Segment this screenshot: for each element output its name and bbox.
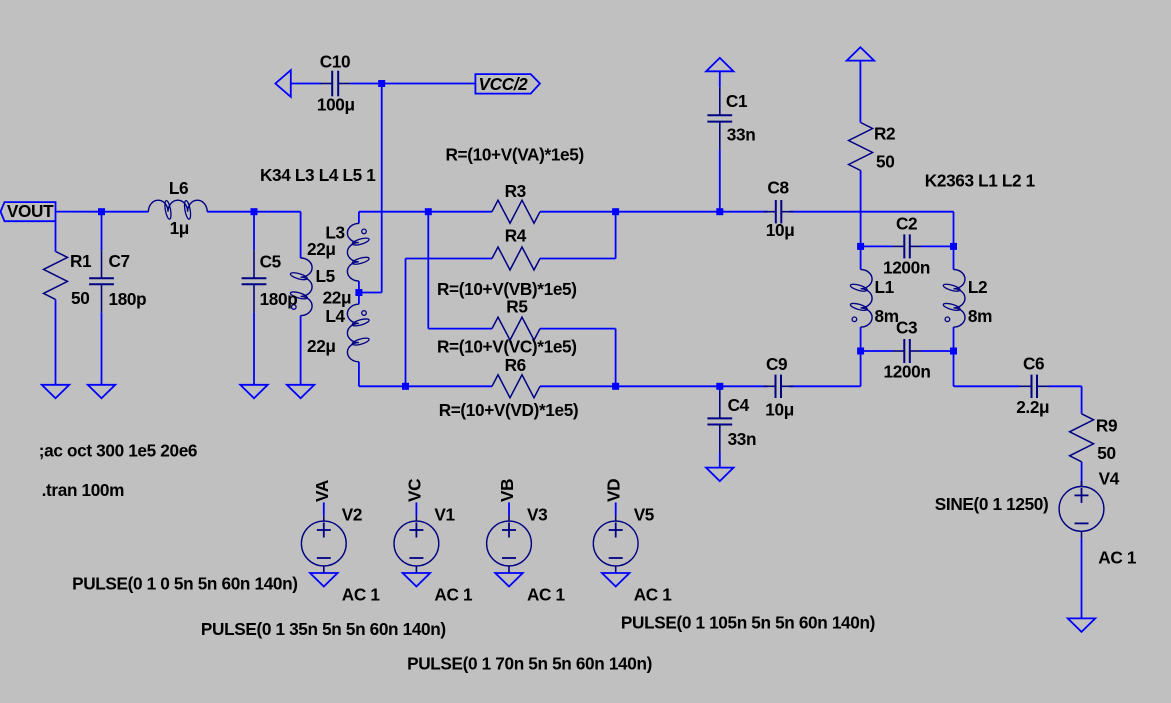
svg-text:PULSE(0 1 105n 5n 5n 60n 140n): PULSE(0 1 105n 5n 5n 60n 140n) — [621, 613, 875, 633]
svg-text:VD: VD — [604, 479, 624, 502]
svg-text:10μ: 10μ — [766, 220, 795, 240]
svg-text:R6: R6 — [505, 355, 526, 375]
svg-text:C10: C10 — [320, 52, 350, 72]
svg-text:AC 1: AC 1 — [634, 585, 673, 605]
svg-text:AC 1: AC 1 — [527, 585, 566, 605]
svg-text:VOUT: VOUT — [7, 201, 54, 221]
svg-text:PULSE(0 1 0 5n 5n 60n 140n): PULSE(0 1 0 5n 5n 60n 140n) — [72, 574, 298, 594]
svg-text:C3: C3 — [896, 317, 917, 337]
svg-text:C7: C7 — [109, 251, 130, 271]
svg-text:R5: R5 — [506, 297, 528, 317]
svg-text:R4: R4 — [505, 226, 527, 246]
svg-text:K2363 L1 L2 1: K2363 L1 L2 1 — [925, 170, 1036, 190]
svg-text:C6: C6 — [1023, 354, 1044, 374]
svg-text:PULSE(0 1 35n 5n 5n 60n 140n): PULSE(0 1 35n 5n 5n 60n 140n) — [201, 619, 446, 639]
svg-text:L1: L1 — [875, 277, 895, 297]
svg-text:8m: 8m — [875, 306, 899, 326]
svg-text:1200n: 1200n — [884, 362, 931, 382]
svg-text:K34 L3 L4 L5 1: K34 L3 L4 L5 1 — [260, 165, 376, 185]
svg-text:AC 1: AC 1 — [434, 585, 473, 605]
svg-text:L6: L6 — [169, 178, 188, 198]
svg-text:1200n: 1200n — [883, 258, 930, 278]
svg-text:180p: 180p — [260, 289, 298, 309]
svg-text:R1: R1 — [70, 251, 92, 271]
svg-text:C8: C8 — [767, 178, 789, 198]
svg-text:R=(10+V(VC)*1e5): R=(10+V(VC)*1e5) — [437, 337, 577, 357]
svg-text:2.2μ: 2.2μ — [1016, 397, 1049, 417]
svg-text:L2: L2 — [968, 277, 987, 297]
svg-text:;ac oct 300 1e5 20e6: ;ac oct 300 1e5 20e6 — [39, 441, 197, 461]
svg-text:50: 50 — [71, 288, 89, 308]
svg-text:V4: V4 — [1099, 468, 1120, 488]
svg-text:V5: V5 — [634, 504, 655, 524]
svg-text:1μ: 1μ — [170, 218, 189, 238]
svg-text:33n: 33n — [727, 124, 756, 144]
svg-text:R=(10+V(VA)*1e5): R=(10+V(VA)*1e5) — [446, 144, 584, 164]
svg-text:R9: R9 — [1096, 416, 1117, 436]
svg-text:C4: C4 — [728, 395, 750, 415]
svg-text:C2: C2 — [896, 214, 917, 234]
svg-text:V3: V3 — [527, 504, 547, 524]
svg-text:AC 1: AC 1 — [342, 585, 381, 605]
svg-text:22μ: 22μ — [307, 336, 336, 356]
svg-text:AC 1: AC 1 — [1098, 548, 1137, 568]
svg-text:C9: C9 — [766, 354, 787, 374]
svg-text:100μ: 100μ — [317, 95, 355, 115]
svg-text:L5: L5 — [316, 266, 336, 286]
svg-text:VCC/2: VCC/2 — [479, 74, 529, 94]
svg-text:V2: V2 — [342, 504, 362, 524]
svg-text:50: 50 — [876, 152, 894, 172]
svg-text:C5: C5 — [260, 252, 282, 272]
svg-text:180p: 180p — [109, 289, 147, 309]
svg-text:VB: VB — [497, 479, 517, 502]
svg-text:VC: VC — [404, 479, 424, 502]
svg-text:PULSE(0 1 70n 5n 5n 60n 140n): PULSE(0 1 70n 5n 5n 60n 140n) — [407, 653, 652, 673]
svg-text:R=(10+V(VD)*1e5): R=(10+V(VD)*1e5) — [439, 400, 579, 420]
svg-text:C1: C1 — [726, 91, 748, 111]
svg-text:R2: R2 — [874, 124, 895, 144]
svg-text:10μ: 10μ — [765, 400, 794, 420]
svg-text:50: 50 — [1097, 443, 1115, 463]
svg-text:8m: 8m — [968, 306, 992, 326]
svg-text:VA: VA — [312, 480, 332, 502]
svg-text:33n: 33n — [728, 429, 757, 449]
svg-text:V1: V1 — [434, 504, 455, 524]
svg-text:L4: L4 — [325, 306, 345, 326]
svg-text:SINE(0 1 1250): SINE(0 1 1250) — [935, 494, 1049, 514]
svg-text:22μ: 22μ — [307, 239, 336, 259]
svg-text:22μ: 22μ — [323, 288, 352, 308]
svg-text:.tran 100m: .tran 100m — [42, 480, 125, 500]
svg-text:R3: R3 — [505, 181, 526, 201]
